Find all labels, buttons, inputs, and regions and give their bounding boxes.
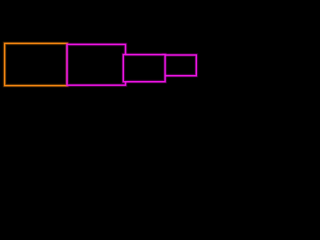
rectangle R4 (magenta window outline, rightmost smallest, left edge hidden behind R3) xyxy=(164,55,197,76)
rectangle R1 (orange window outline, leftmost, largest) xyxy=(5,43,68,85)
rectangle R3 (magenta window outline, third from left, topmost in z-order) xyxy=(123,55,165,82)
rectangle R2 (magenta window outline, second from left) xyxy=(67,44,125,85)
